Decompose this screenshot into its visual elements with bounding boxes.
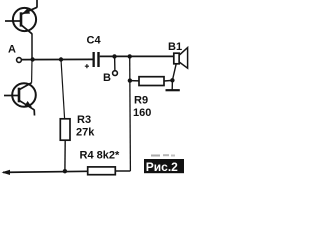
label Рис.2	[144, 154, 184, 174]
wire speaker bottom lead	[172, 64, 176, 90]
transistor Q1	[5, 0, 37, 34]
resistor R3	[60, 60, 70, 172]
svg-text:R3: R3	[77, 114, 91, 126]
svg-text:27k: 27k	[76, 126, 95, 138]
wire node A junction down to Q2 collector	[31, 60, 33, 83]
arrow left	[2, 170, 11, 175]
speaker B1	[174, 48, 188, 69]
junction dot R3 bottom	[63, 169, 67, 173]
wire R9/R4 branch vertical	[129, 56, 132, 171]
svg-text:A: A	[8, 44, 16, 56]
capacitor C4	[85, 52, 100, 68]
junction dot R3 top	[59, 57, 63, 61]
wire capacitor to speaker	[100, 55, 174, 57]
svg-text:B1: B1	[168, 41, 182, 53]
transistor Q2	[4, 83, 36, 116]
junction dot R9 branch	[128, 54, 132, 58]
svg-text:B: B	[103, 72, 111, 84]
svg-text:R4 8k2*: R4 8k2*	[80, 149, 120, 161]
node B	[113, 71, 118, 76]
ground	[166, 89, 180, 91]
svg-text:R9: R9	[134, 95, 148, 107]
wire bottom rail	[3, 171, 88, 172]
junction dot R9 left	[128, 78, 132, 82]
junction dot speaker bottom	[170, 78, 174, 82]
node A	[17, 58, 22, 63]
wire Q1 collector to node A junction	[31, 34, 33, 60]
resistor R4	[88, 167, 131, 175]
wire node A to capacitor C4	[22, 58, 93, 60]
junction dot node B	[112, 54, 116, 58]
junction dot collectors	[30, 57, 34, 61]
svg-text:C4: C4	[87, 34, 102, 46]
svg-text:Рис.2: Рис.2	[146, 160, 178, 174]
svg-text:160: 160	[133, 107, 151, 119]
node B stub	[114, 56, 116, 70]
resistor R9	[130, 77, 173, 86]
